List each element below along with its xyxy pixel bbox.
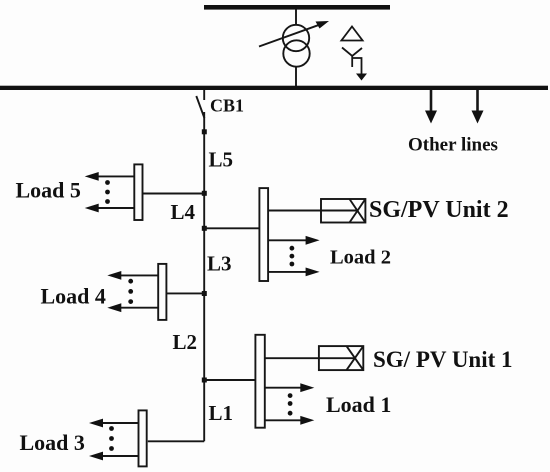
svg-text:CB1: CB1 — [210, 96, 244, 116]
svg-text:Load 1: Load 1 — [326, 392, 391, 417]
svg-text:L1: L1 — [209, 401, 234, 425]
Load 5 arrow lower — [85, 204, 135, 213]
Load 3 arrow upper — [89, 419, 139, 428]
Load 3 busbar — [139, 410, 147, 466]
Load 1 dots — [288, 393, 293, 415]
svg-text:Load 5: Load 5 — [16, 178, 81, 203]
svg-text:Load 4: Load 4 — [41, 284, 106, 309]
wire: feeder main — [203, 112, 205, 441]
Load 5 busbar — [134, 164, 142, 220]
Load 5 dots — [105, 180, 110, 204]
transformer T1 primary winding — [283, 25, 309, 51]
SG/PV Unit 2 busbar — [259, 188, 268, 281]
wire: transformer to LV bus — [295, 67, 297, 86]
wire: tap to Load 4 bar — [166, 292, 204, 294]
Other lines arrow right — [472, 90, 484, 124]
neutral ground arrow — [353, 58, 367, 81]
wire: tap to Unit 1 bar — [204, 379, 255, 381]
node L1 junction (SG/PV Unit 1 tap) — [202, 378, 207, 383]
wire: feeder end to Load 3 bar — [148, 440, 204, 442]
svg-text:L3: L3 — [207, 252, 232, 276]
busbar top (HV bus) — [204, 5, 390, 10]
SG/PV Unit 2 generator symbol — [268, 199, 365, 223]
Load 2 arrow lower — [268, 268, 320, 277]
Load 2 arrow upper — [268, 236, 320, 245]
SG/PV Unit 1 busbar — [255, 335, 264, 428]
busbar LV (distribution bus) — [0, 86, 548, 90]
wire: tap to Unit 2 bar — [204, 227, 259, 229]
Load 1 arrow lower — [265, 416, 315, 425]
Load 5 arrow upper — [85, 172, 135, 181]
Load 4 arrow upper — [107, 271, 158, 280]
Load 4 dots — [128, 279, 133, 304]
svg-text:Other lines: Other lines — [408, 135, 498, 156]
Load 3 dots — [109, 426, 114, 451]
node L3 junction (SG/PV Unit 2 tap) — [202, 226, 207, 231]
transformer tap-changer arrow — [259, 21, 329, 47]
svg-text:Load 2: Load 2 — [330, 247, 391, 269]
svg-text:L2: L2 — [173, 330, 198, 354]
svg-text:Load 3: Load 3 — [20, 430, 85, 455]
Load 4 arrow lower — [107, 303, 158, 312]
node below CB1 — [202, 129, 207, 134]
Load 4 busbar — [158, 264, 166, 320]
Load 2 dots — [290, 246, 295, 267]
Other lines arrow left — [425, 90, 437, 124]
delta winding symbol — [341, 27, 362, 41]
svg-text:L5: L5 — [209, 148, 234, 172]
svg-text:SG/ PV Unit 1: SG/ PV Unit 1 — [373, 347, 513, 372]
SG/PV Unit 1 generator symbol — [265, 346, 364, 370]
svg-text:SG/PV Unit 2: SG/PV Unit 2 — [369, 197, 509, 223]
wye winding symbol — [342, 48, 362, 68]
svg-text:L4: L4 — [171, 200, 196, 224]
node L4 junction (Load 5 tap) — [202, 191, 207, 196]
transformer T1 secondary winding — [283, 40, 309, 66]
Load 1 arrow upper — [265, 383, 315, 392]
circuit breaker CB1 — [196, 90, 204, 118]
node L2 junction (Load 4 tap) — [202, 291, 207, 296]
wire: tap to Load 5 bar — [143, 193, 205, 195]
Load 3 arrow lower — [89, 452, 139, 461]
wire: HV bus to transformer — [295, 10, 297, 26]
